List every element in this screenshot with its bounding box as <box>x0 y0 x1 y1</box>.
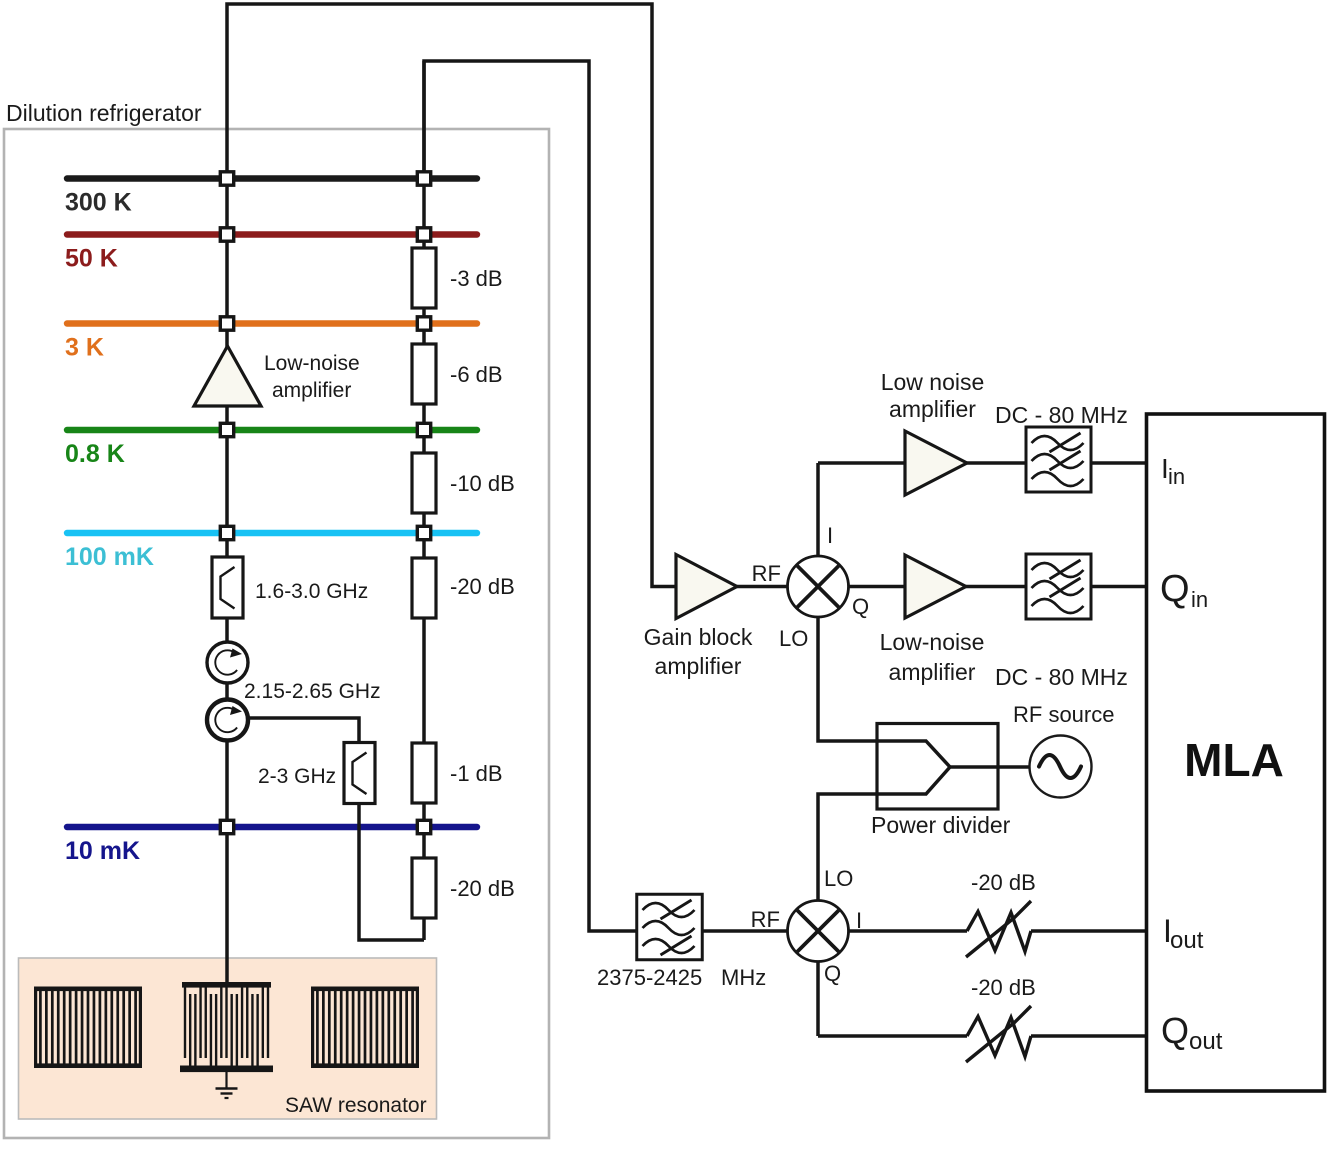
svg-text:3 K: 3 K <box>65 334 104 362</box>
svg-text:amplifier: amplifier <box>889 659 976 685</box>
svg-text:out: out <box>1189 1028 1223 1055</box>
svg-text:2375-2425: 2375-2425 <box>597 965 702 990</box>
svg-text:-20 dB: -20 dB <box>450 876 515 901</box>
svg-text:2-3 GHz: 2-3 GHz <box>258 765 336 788</box>
svg-text:in: in <box>1168 464 1185 489</box>
svg-text:1.6-3.0 GHz: 1.6-3.0 GHz <box>255 580 368 603</box>
svg-text:Q: Q <box>824 961 841 986</box>
svg-text:50 K: 50 K <box>65 245 118 273</box>
svg-text:10 mK: 10 mK <box>65 837 140 865</box>
svg-text:0.8 K: 0.8 K <box>65 440 125 468</box>
svg-text:MHz: MHz <box>721 965 766 990</box>
svg-text:Q: Q <box>852 594 869 619</box>
svg-text:Dilution refrigerator: Dilution refrigerator <box>6 100 202 126</box>
svg-text:SAW resonator: SAW resonator <box>285 1094 427 1117</box>
svg-text:MLA: MLA <box>1184 734 1284 786</box>
svg-text:RF: RF <box>752 561 781 586</box>
svg-text:-1 dB: -1 dB <box>450 761 503 786</box>
svg-text:I: I <box>856 908 862 933</box>
svg-text:out: out <box>1170 927 1204 954</box>
svg-text:Gain block: Gain block <box>644 624 753 650</box>
svg-text:amplifier: amplifier <box>272 379 351 402</box>
svg-text:DC - 80 MHz: DC - 80 MHz <box>995 402 1128 428</box>
svg-text:Low-noise: Low-noise <box>264 352 360 375</box>
svg-text:I: I <box>827 523 833 548</box>
svg-text:Low-noise: Low-noise <box>880 629 985 655</box>
svg-text:in: in <box>1191 587 1208 612</box>
svg-text:RF source: RF source <box>1013 702 1114 727</box>
svg-text:Q: Q <box>1160 568 1190 610</box>
svg-text:-6 dB: -6 dB <box>450 362 503 387</box>
svg-text:300 K: 300 K <box>65 189 132 217</box>
svg-text:Low noise: Low noise <box>881 369 985 395</box>
svg-text:LO: LO <box>779 626 808 651</box>
svg-text:-10 dB: -10 dB <box>450 471 515 496</box>
svg-text:amplifier: amplifier <box>655 653 742 679</box>
svg-text:RF: RF <box>751 907 780 932</box>
svg-text:-3 dB: -3 dB <box>450 266 503 291</box>
svg-text:Q: Q <box>1161 1010 1189 1051</box>
svg-text:100 mK: 100 mK <box>65 543 154 571</box>
svg-text:-20 dB: -20 dB <box>971 975 1036 1000</box>
svg-text:-20 dB: -20 dB <box>450 574 515 599</box>
svg-text:Power divider: Power divider <box>871 812 1011 838</box>
svg-text:amplifier: amplifier <box>889 396 976 422</box>
svg-text:-20 dB: -20 dB <box>971 870 1036 895</box>
svg-text:2.15-2.65 GHz: 2.15-2.65 GHz <box>244 680 381 703</box>
svg-text:LO: LO <box>824 866 853 891</box>
svg-text:DC - 80 MHz: DC - 80 MHz <box>995 664 1128 690</box>
